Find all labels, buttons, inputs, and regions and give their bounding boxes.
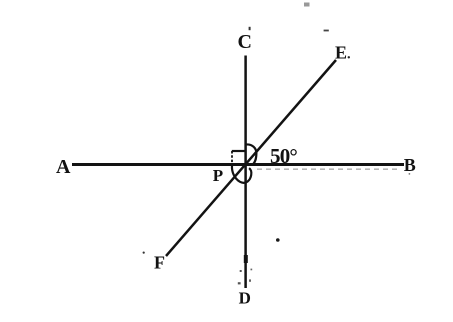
right-angle marker at P (square, dotted left edge) <box>231 151 233 164</box>
wire: horizontal line A-B <box>72 163 404 166</box>
scan noise: dash right of C <box>324 30 329 32</box>
svg-text:F: F <box>154 252 165 272</box>
scan noise: thick blob on CD near y=258 <box>244 255 248 263</box>
svg-text:50°: 50° <box>270 144 297 168</box>
wire: diagonal line F-E <box>166 60 336 256</box>
svg-text:B: B <box>404 155 416 175</box>
angle arc lower-left swirl (between PA, PF, PD) <box>232 166 251 183</box>
wire: faint scan artifact dashed line under right half of AB <box>257 168 400 170</box>
right-angle marker at P (square, top edge) <box>232 150 245 152</box>
scan noise: specks beside lower CD segment <box>240 270 242 272</box>
wire: vertical line C-D <box>244 56 247 289</box>
scan noise: speck cluster top <box>304 3 310 7</box>
svg-text:P: P <box>213 166 223 185</box>
svg-text:E: E <box>335 43 347 63</box>
angle arc upper-right (marks 50 degree region between PC and PB) <box>246 144 257 164</box>
scan noise: dot below E-line <box>276 238 280 242</box>
svg-text:A: A <box>56 156 71 178</box>
svg-text:D: D <box>239 289 251 308</box>
scan noise: dot left of F <box>143 252 145 254</box>
svg-text:C: C <box>237 31 251 53</box>
scan noise: faint dot below B <box>409 173 411 175</box>
scan noise: period after E <box>348 56 350 58</box>
scan noise: apostrophe above C <box>249 27 251 30</box>
